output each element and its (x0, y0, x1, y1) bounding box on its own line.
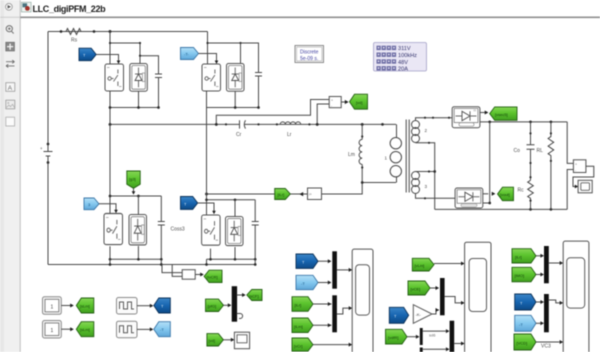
svg-text:[vCr]: [vCr] (294, 343, 302, 348)
wire: g3b gate wire (99, 204, 116, 211)
wire: Vd sense lower (317, 104, 329, 124)
From tag [vd] (207, 334, 224, 346)
wire: secondary 2 top to rectifier (416, 118, 453, 121)
wire: D3 upper lead (137, 196, 139, 215)
Goto tag [IvCR] (204, 270, 222, 282)
svg-text:1: 1 (51, 305, 54, 311)
wire: leg1 drain drop (109, 32, 111, 65)
constant block C1 (43, 297, 62, 315)
wire: output - rail (435, 208, 568, 210)
mux A1 (332, 251, 337, 288)
wire: C1 to tag (61, 305, 71, 307)
wire: mux C1 to scope C (549, 262, 560, 264)
svg-text:[vdfR]: [vdfR] (388, 335, 398, 340)
Goto tag [sLm2] (76, 322, 94, 337)
tab bar separator (20, 16, 600, 18)
node leg1 diode branch (109, 42, 111, 44)
wire: mux B2 to scope B input 3 (454, 343, 461, 345)
wire: Vd output (341, 101, 346, 103)
svg-text:[sLm]: [sLm] (80, 304, 90, 309)
toolbar icon: zoom (6, 26, 13, 34)
mux B4 (clipped) (420, 348, 423, 352)
toolbar icon: arrows (6, 60, 15, 67)
node leg3 top junctions (109, 195, 112, 198)
From tag g3b (light blue) (84, 198, 99, 210)
wire: mux M1 out (237, 294, 244, 296)
svg-text:+: + (575, 163, 577, 167)
Goto tag T (dark blue) (154, 298, 171, 313)
svg-text:sd6: sd6 (429, 333, 436, 338)
svg-text:+: + (331, 99, 333, 103)
wire: Vo to scope (573, 166, 594, 186)
wire: leg B phase drop to leg4 (206, 124, 208, 215)
inductor Lm (348, 123, 364, 183)
display block Vd (234, 332, 249, 349)
voltage measurement Vo (573, 160, 586, 173)
toolbar icon: image (6, 100, 15, 109)
svg-text:20A: 20A (398, 67, 408, 73)
collapse button (5, 3, 12, 10)
secondary winding 2 (412, 121, 420, 129)
svg-text:[iLm]: [iLm] (294, 324, 303, 329)
wire: Coss3 leads (160, 196, 162, 259)
svg-text:[VCD]: [VCD] (517, 341, 528, 346)
svg-text:[iLr]: [iLr] (278, 192, 285, 197)
svg-text:Discrete: Discrete (300, 50, 319, 56)
resistor Rs (60, 29, 96, 44)
svg-text:[iMO]: [iMO] (515, 273, 525, 278)
wire: leg2 source bar (207, 91, 259, 124)
annotation: parameters note (374, 43, 427, 73)
capacitor Coss4 (252, 222, 259, 226)
pulse generator P2 (117, 321, 138, 338)
From tag [iLm] (292, 318, 313, 333)
svg-text:-T: -T (160, 327, 164, 332)
wire: Coss4 leads (254, 200, 256, 259)
svg-text:[vCE]: [vCE] (411, 287, 421, 292)
left toolbar panel (0, 0, 20, 352)
svg-text:-T: -T (519, 322, 523, 327)
capacitor Coss2 (255, 73, 262, 77)
scope C (563, 241, 589, 352)
Goto tag [sLm1] (76, 298, 94, 313)
wire: leg2 drop from bus (207, 32, 209, 65)
node leg3 bar junctions (109, 258, 112, 261)
resistor RL (537, 122, 554, 209)
mux C1 (544, 246, 549, 283)
wire: Vo sense - (567, 170, 573, 210)
svg-text:[vd]: [vd] (356, 100, 362, 105)
gain G1 (413, 305, 432, 324)
svg-text:Rc: Rc (518, 188, 525, 194)
node leg4 top junctions (205, 198, 208, 201)
svg-text:RL: RL (537, 148, 544, 154)
wire: mux A2 to scope A input 2 (337, 308, 349, 314)
Goto tag [iLr] (275, 189, 304, 200)
wire: primary bottom return (322, 183, 396, 195)
wire: P2 to tag (137, 328, 150, 330)
wire: IvCR output (195, 274, 201, 276)
wire: leg2 diode/cap branch (208, 43, 259, 73)
svg-text:[vsec5]: [vsec5] (495, 112, 508, 117)
node A (tank input) (109, 123, 112, 126)
svg-text:Cr: Cr (236, 132, 242, 138)
secondary winding 3 (412, 172, 420, 180)
node secondary 2 top junctions (424, 117, 426, 119)
From tag [vdfR] (386, 329, 408, 344)
rectifier diode D5 (452, 107, 480, 128)
mux B3 (420, 328, 423, 345)
wire: Vd sense upper (216, 100, 329, 125)
From tag K (dark blue) (389, 307, 408, 323)
capacitor Cr (225, 120, 260, 138)
svg-text:[iLr]: [iLr] (515, 254, 522, 259)
inductor Lr (276, 122, 311, 138)
resistor Rc (528, 180, 534, 209)
node B (tank return) (205, 193, 208, 196)
node center tap lower (433, 170, 436, 173)
rectifier diode D6 (455, 188, 483, 208)
wire: g2 gate wire (199, 54, 217, 62)
node output + rail junctions (488, 121, 491, 124)
diode D4 (226, 217, 244, 246)
voltage measurement Vd (329, 97, 341, 109)
wire: Coss1 lower lead (158, 78, 160, 108)
svg-text:A: A (8, 85, 13, 92)
node leg2 source junctions (234, 106, 237, 109)
diode D2 (227, 64, 245, 92)
From tag -T (light blue) (296, 275, 318, 289)
toolbar icon: annotation A (6, 83, 15, 92)
svg-text:[pfG]: [pfG] (208, 304, 217, 309)
svg-text:-T: -T (301, 281, 305, 286)
From tag [iMO] (512, 267, 536, 282)
mux B2 (450, 321, 455, 352)
capacitor Coss3 (158, 222, 165, 226)
svg-text:i+: i+ (309, 193, 312, 197)
svg-text:[iLr]: [iLr] (295, 303, 302, 308)
capacitor Coss1 (155, 74, 162, 78)
From tag [vCE] (408, 281, 430, 295)
svg-text:Rs: Rs (71, 38, 78, 44)
pulse generator P1 (117, 298, 138, 315)
scope A (352, 249, 373, 352)
diode D1 (130, 64, 148, 92)
svg-text:LLC_digiPFM_22b: LLC_digiPFM_22b (33, 4, 107, 14)
Goto tag [vsec] (490, 107, 517, 120)
wire: D6 m output (483, 193, 489, 195)
Goto tag -T (light blue) (154, 322, 171, 337)
wire: C2 to tag (61, 328, 71, 330)
From tag [VCD] (514, 334, 536, 350)
wire: vdfR to mux B3 (407, 336, 416, 338)
node center tap upper (428, 142, 430, 144)
wire: tags to mux A2 (313, 303, 332, 305)
mux B1 (440, 278, 445, 315)
wire: mux B3 to mux B2 (423, 330, 446, 332)
node leg2 diode branch (206, 42, 208, 44)
svg-text:VC3: VC3 (541, 344, 551, 350)
From tag g2 (light blue) (181, 48, 199, 60)
node: bus junction leg1 (109, 30, 112, 33)
wire: vCE to mux B1 (430, 287, 439, 289)
mux A2 (332, 295, 337, 332)
From tag g4 (dark blue) (181, 197, 198, 210)
wire: D2 upper lead (240, 43, 242, 64)
wire: secondary 3 top to center tap (416, 171, 435, 173)
svg-text:[vout]: [vout] (500, 192, 510, 197)
wire: vd to display (223, 339, 231, 341)
current measurement iLr (308, 188, 322, 200)
node bus junctions (109, 263, 112, 266)
wire: leg4 top bar (207, 199, 256, 201)
core (406, 120, 409, 193)
wire: leg3 top bar (110, 195, 161, 197)
node Vd sense tap 2 (316, 123, 319, 126)
primary winding 1 (396, 124, 398, 137)
From tag T (dark blue) (296, 254, 318, 268)
wire: secondary 2 bottom / center tap (416, 143, 435, 210)
From tag [vLm] (412, 258, 434, 271)
wire: output + rail (480, 121, 567, 123)
tab model icon (22, 2, 32, 12)
svg-text:[sCF]: [sCF] (249, 293, 259, 298)
svg-text:[sLm]: [sLm] (80, 327, 90, 332)
wire: leg1 source bar (110, 91, 159, 124)
node leg4 bar junctions (209, 258, 212, 261)
wire: gain to mux B1 (432, 310, 439, 314)
wire: tags to mux C2 (536, 301, 543, 303)
svg-text:5e-09 s.: 5e-09 s. (300, 56, 318, 62)
wire: secondary 3 bottom to rectifier (416, 194, 456, 199)
svg-text:Co: Co (514, 148, 521, 154)
wire: g1 gate wire (96, 55, 118, 62)
panel separator (19, 0, 21, 352)
wire: leg1 snubber cap branch (140, 56, 159, 74)
Goto tag [vout] (498, 187, 514, 201)
wire: top DC bus (48, 31, 208, 33)
switch Q4 (202, 215, 221, 245)
svg-text:1: 1 (51, 328, 54, 334)
wire: leg1 diode branch (110, 43, 140, 64)
node leg1 source junctions (109, 106, 112, 109)
powergui Discrete block (295, 46, 324, 63)
switch Q2 (202, 64, 221, 91)
wire: tags to mux A1 (318, 260, 329, 262)
From tag g1 (dark blue) (79, 48, 96, 61)
wire: mux B1 to scope B input 2 (445, 297, 462, 303)
wire: mux C2 to scope C input 2 (549, 300, 560, 303)
left edge strip (0, 0, 4, 352)
wire: mux B4 to mux B2 (423, 348, 446, 350)
wire: D5 m output (480, 112, 486, 114)
node secondary 3 bottom (424, 197, 426, 199)
wire: bar-to-bus links (110, 259, 255, 264)
wire: g4 gate wire (198, 203, 214, 212)
node Vd sense tap 1 (215, 123, 218, 126)
svg-text:Lm: Lm (348, 152, 355, 158)
toolbar icon: empty box (6, 117, 15, 126)
scope B (465, 242, 491, 352)
diode D3 (129, 215, 147, 245)
wire: bus taps to sense block (162, 265, 182, 277)
From tag T2 (dark blue) (515, 294, 536, 310)
wire: rectifier junction vertical (483, 122, 490, 203)
svg-text:[vLm]: [vLm] (415, 263, 425, 268)
switch Q3 (104, 214, 123, 245)
node Lm bottom junction (361, 181, 364, 184)
svg-text:48V: 48V (398, 60, 408, 66)
From tag g3 (green, down) (127, 171, 140, 195)
capacitor Co (514, 122, 535, 180)
From tag [iLr] C (512, 249, 536, 263)
panel top separator (0, 16, 20, 18)
svg-text:Lr: Lr (287, 132, 292, 138)
wire: leg A phase drop to leg3 (109, 124, 111, 213)
DC voltage source V1 (40, 143, 53, 164)
wire: leg4 source bar (207, 247, 256, 259)
constant block C2 (43, 321, 62, 339)
wire: left source branch (47, 32, 49, 265)
switch Q1 (105, 64, 124, 91)
wire: Coss2 lower lead (258, 76, 260, 108)
measurement block IvCR (182, 270, 195, 280)
svg-text:+: + (40, 146, 43, 151)
scope Vo display (578, 180, 592, 193)
mux C2 (544, 294, 549, 332)
transformer T1 (381, 120, 427, 194)
wire: pfG to mux (224, 304, 229, 306)
svg-text:Coss3: Coss3 (171, 227, 185, 233)
Goto tag [sCF] (247, 290, 262, 301)
svg-text:311V: 311V (398, 46, 411, 52)
wire: tags to mux C1 (536, 255, 543, 257)
wire: leg3 source bar (110, 246, 161, 259)
wire: bottom DC bus (48, 264, 257, 266)
mux M1 (232, 287, 236, 322)
wire: mux A1 to scope A (337, 269, 349, 271)
svg-text:[g3]: [g3] (129, 177, 136, 182)
wire: return to bridge leg B (207, 193, 308, 195)
svg-text:-K-: -K- (416, 312, 422, 317)
wire: Vo sense + (567, 122, 573, 163)
wire: P1 to tag (137, 305, 150, 307)
svg-text:-T-: -T- (184, 52, 190, 57)
From tag -T2 (light blue) (515, 315, 536, 331)
From tag [iLr] (292, 297, 313, 312)
svg-text:[IvCR]: [IvCR] (207, 275, 218, 280)
svg-text:[vd]: [vd] (209, 338, 215, 343)
wire: D4 upper lead (234, 200, 236, 217)
wire: VCD to scope C input 3 (536, 341, 559, 343)
wire: vCr to scope A input 3 (313, 344, 349, 346)
toolbar icon: fit view (6, 42, 15, 51)
svg-text:m: m (474, 109, 477, 113)
svg-text:100kHz: 100kHz (398, 53, 417, 59)
wire: vLm to scope B (434, 263, 461, 265)
Goto tag [vd] (350, 94, 368, 109)
wire: tank rail (110, 123, 396, 125)
node leg1 snubber tap (139, 55, 141, 57)
From tag [pfG] (206, 299, 224, 311)
From tag [vCr] (292, 338, 313, 351)
